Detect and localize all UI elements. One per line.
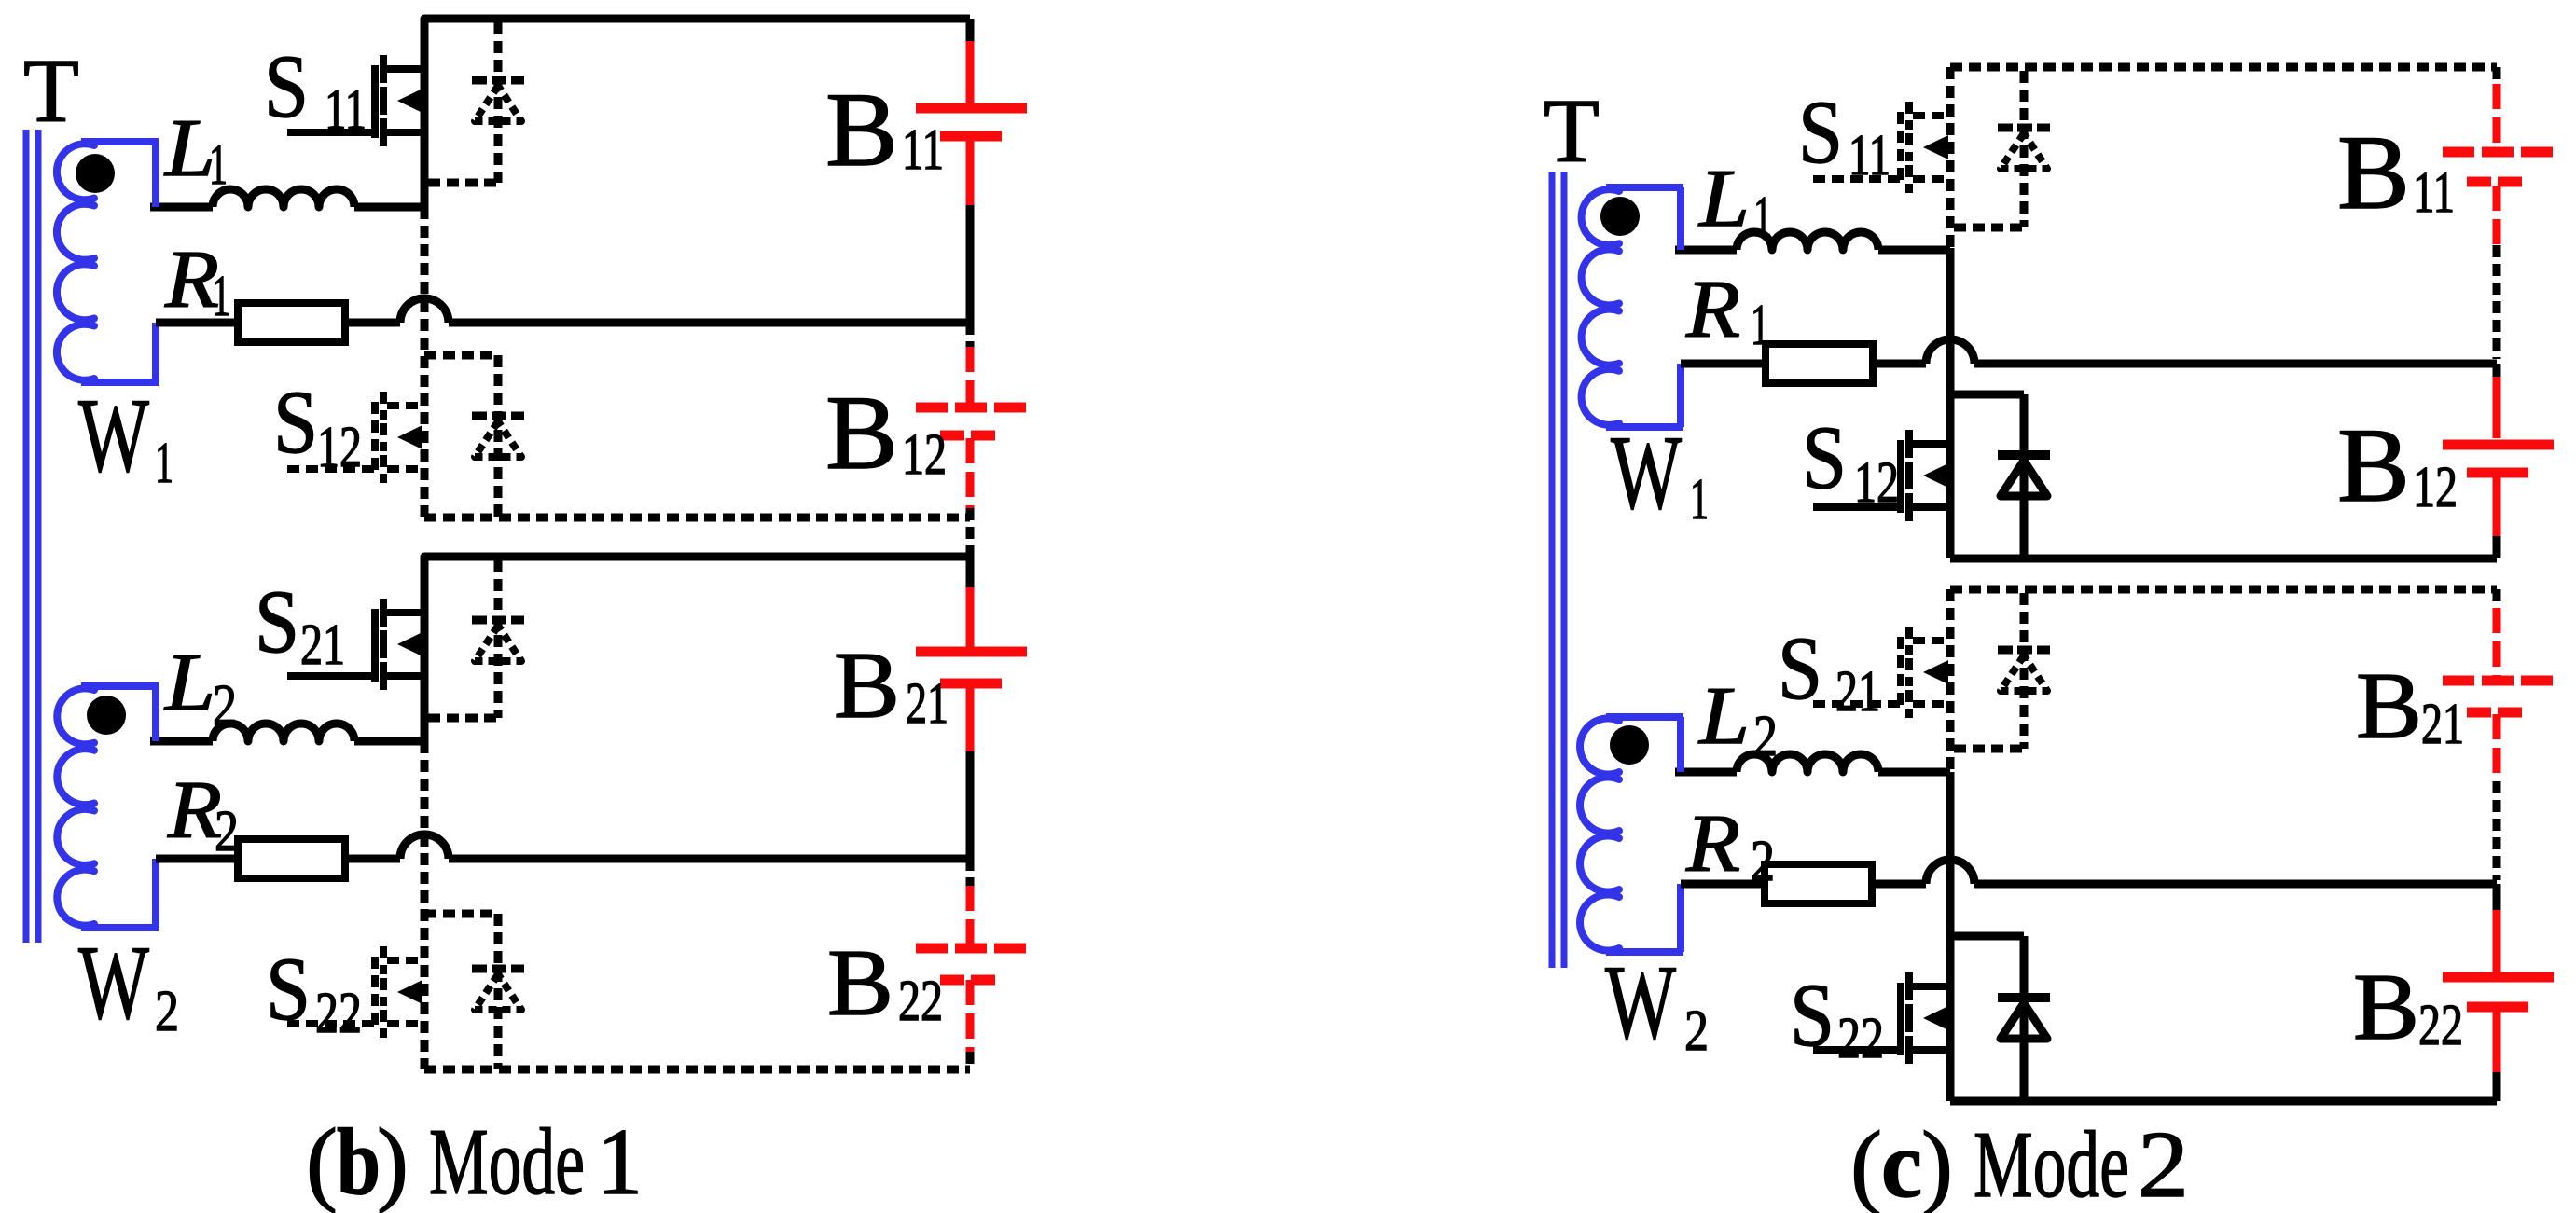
svg-text:1: 1 xyxy=(155,432,173,495)
svg-text:1: 1 xyxy=(597,1110,643,1213)
svg-text:B: B xyxy=(2356,654,2422,759)
svg-text:Mode: Mode xyxy=(1974,1112,2129,1213)
svg-text:2: 2 xyxy=(213,674,237,737)
svg-text:(: ( xyxy=(306,1110,338,1213)
svg-text:b: b xyxy=(337,1110,381,1213)
svg-text:W: W xyxy=(1605,944,1676,1061)
svg-text:2: 2 xyxy=(215,800,239,863)
svg-text:12: 12 xyxy=(902,423,947,487)
svg-text:1: 1 xyxy=(209,133,228,197)
svg-text:1: 1 xyxy=(1690,468,1709,531)
svg-text:12: 12 xyxy=(1854,451,1899,515)
svg-text:12: 12 xyxy=(317,416,362,479)
svg-text:c: c xyxy=(1881,1112,1922,1213)
svg-text:T: T xyxy=(23,41,79,142)
svg-text:S: S xyxy=(273,372,318,472)
svg-text:11: 11 xyxy=(1849,124,1890,187)
svg-text:11: 11 xyxy=(2413,161,2455,225)
svg-text:R: R xyxy=(1685,799,1740,889)
svg-text:22: 22 xyxy=(1837,1007,1884,1070)
svg-text:11: 11 xyxy=(902,118,944,182)
svg-text:B: B xyxy=(2337,115,2410,231)
svg-text:2: 2 xyxy=(1751,830,1775,893)
svg-text:22: 22 xyxy=(2418,994,2463,1057)
svg-text:1: 1 xyxy=(212,265,230,328)
svg-text:B: B xyxy=(2337,407,2410,524)
svg-text:S: S xyxy=(266,939,311,1039)
svg-text:2: 2 xyxy=(155,980,179,1043)
svg-text:2: 2 xyxy=(2138,1112,2189,1213)
svg-text:S: S xyxy=(1802,407,1847,507)
svg-text:B: B xyxy=(825,72,898,188)
svg-text:): ) xyxy=(1921,1112,1953,1213)
svg-text:B: B xyxy=(2353,955,2419,1060)
svg-text:L: L xyxy=(1697,671,1750,762)
svg-text:B: B xyxy=(825,375,898,491)
svg-text:11: 11 xyxy=(325,78,367,142)
svg-text:21: 21 xyxy=(906,672,949,736)
svg-text:B: B xyxy=(827,930,893,1036)
svg-text:S: S xyxy=(1778,618,1822,718)
svg-text:S: S xyxy=(1790,965,1835,1065)
svg-text:L: L xyxy=(163,103,215,194)
svg-text:R: R xyxy=(1685,265,1740,355)
svg-text:S: S xyxy=(255,572,299,671)
svg-text:1: 1 xyxy=(1753,186,1772,249)
svg-text:): ) xyxy=(377,1110,409,1213)
svg-text:21: 21 xyxy=(1835,660,1880,724)
svg-text:21: 21 xyxy=(2421,693,2464,756)
svg-text:2: 2 xyxy=(1753,705,1778,768)
svg-text:L: L xyxy=(163,638,215,728)
svg-text:1: 1 xyxy=(1751,294,1769,357)
svg-text:B: B xyxy=(834,633,900,738)
svg-text:S: S xyxy=(1798,82,1843,182)
svg-text:22: 22 xyxy=(898,970,943,1033)
svg-text:22: 22 xyxy=(315,982,362,1045)
svg-text:W: W xyxy=(78,378,149,494)
svg-text:W: W xyxy=(1611,415,1682,531)
svg-text:W: W xyxy=(78,925,149,1041)
svg-text:L: L xyxy=(1697,154,1750,244)
svg-text:S: S xyxy=(264,36,309,136)
svg-text:(: ( xyxy=(1850,1112,1882,1213)
svg-text:T: T xyxy=(1544,81,1600,182)
svg-text:21: 21 xyxy=(300,613,345,677)
svg-text:Mode: Mode xyxy=(429,1110,585,1213)
svg-text:12: 12 xyxy=(2413,456,2458,519)
svg-text:2: 2 xyxy=(1684,999,1709,1063)
